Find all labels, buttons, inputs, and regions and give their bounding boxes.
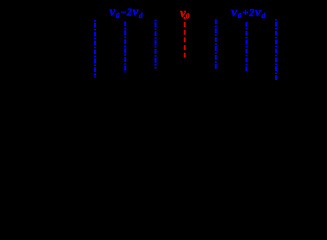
comb line nu0+nud [215, 19, 217, 69]
svg-text:ν0+2νd: ν0+2νd [231, 4, 266, 20]
comb line nu0-3nud [94, 20, 96, 78]
carrier line nu0 (red) [184, 17, 186, 58]
comb line nu0-nud [155, 20, 157, 69]
comb line nu0+3nud [275, 19, 277, 81]
comb line nu0+2nud [246, 22, 248, 72]
comb line nu0-2nud [124, 22, 126, 73]
